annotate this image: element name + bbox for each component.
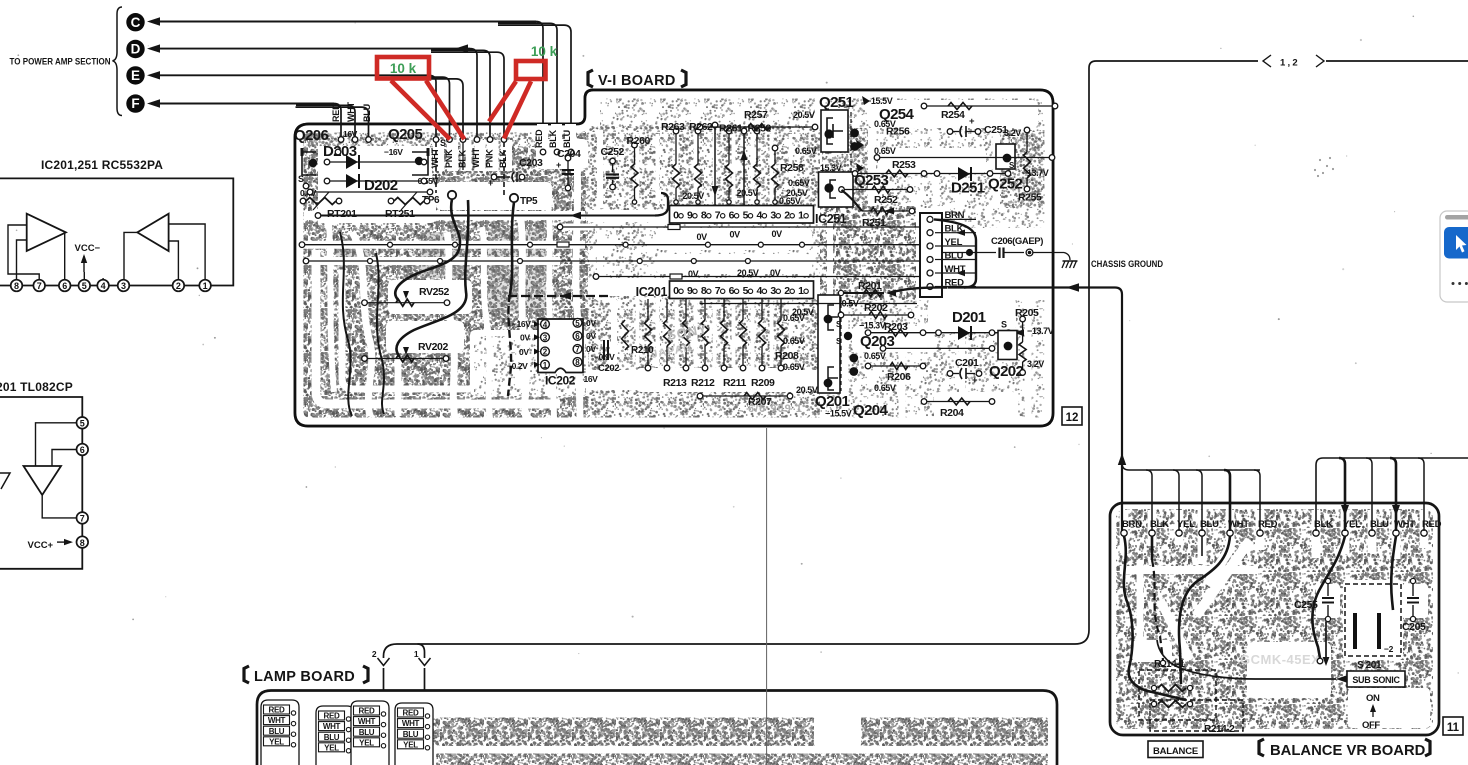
svg-text:Q251: Q251 [819, 94, 854, 111]
svg-text:20.5V: 20.5V [793, 110, 815, 120]
svg-text:16V: 16V [343, 129, 358, 139]
svg-text:BLU: BLU [1200, 519, 1219, 530]
svg-text:10 k: 10 k [531, 44, 558, 59]
svg-text:LAMP BOARD: LAMP BOARD [254, 669, 355, 685]
svg-text:8: 8 [701, 210, 707, 222]
svg-text:R257: R257 [744, 109, 768, 121]
svg-text:R208: R208 [775, 350, 799, 362]
svg-text:R262: R262 [689, 121, 713, 133]
svg-text:0.65V: 0.65V [864, 351, 886, 361]
svg-text:RED: RED [324, 712, 341, 721]
svg-text:BLK: BLK [548, 129, 558, 148]
svg-text:R214-2: R214-2 [1204, 724, 1235, 735]
svg-text:3: 3 [770, 285, 776, 297]
svg-text:1: 1 [543, 361, 548, 370]
svg-text:5: 5 [80, 419, 85, 429]
svg-text:RED: RED [269, 706, 286, 715]
svg-text:6/6 909 1: 6/6 909 1 [748, 403, 803, 415]
svg-text:R205: R205 [1015, 307, 1039, 319]
svg-text:9: 9 [687, 210, 693, 222]
svg-text:WHT: WHT [402, 719, 420, 728]
svg-text:7: 7 [715, 285, 721, 297]
svg-text:RT251: RT251 [385, 208, 415, 220]
svg-text:C206(GAEP): C206(GAEP) [991, 236, 1043, 247]
svg-text:0.65V: 0.65V [783, 336, 805, 346]
svg-text:0.65V: 0.65V [874, 383, 896, 393]
svg-text:−16V: −16V [512, 319, 531, 329]
svg-text:R203: R203 [884, 321, 908, 333]
svg-text:RV202: RV202 [418, 341, 448, 353]
svg-text:10 k: 10 k [390, 61, 417, 76]
svg-text:C205: C205 [1402, 621, 1426, 633]
svg-text:RV252: RV252 [419, 286, 449, 298]
svg-text:R260: R260 [627, 135, 651, 147]
svg-text:0V: 0V [688, 269, 699, 279]
svg-text:6: 6 [80, 445, 85, 455]
svg-text:0V: 0V [772, 229, 783, 239]
svg-text:BALANCE VR BOARD: BALANCE VR BOARD [1270, 743, 1426, 759]
svg-text:5: 5 [743, 210, 749, 222]
svg-text:C252: C252 [601, 146, 625, 158]
svg-text:0.65V: 0.65V [779, 196, 801, 206]
svg-text:IC201: IC201 [636, 285, 668, 299]
svg-text:0V: 0V [519, 347, 529, 357]
svg-text:BLU: BLU [359, 728, 375, 737]
svg-text:1,2: 1,2 [1280, 58, 1300, 69]
svg-text:YEL: YEL [359, 738, 374, 747]
svg-text:2: 2 [784, 210, 790, 222]
svg-text:+: + [488, 178, 493, 188]
svg-text:WHT: WHT [346, 101, 356, 122]
svg-text:R213: R213 [663, 377, 687, 389]
svg-text:Q206: Q206 [294, 127, 329, 144]
svg-text:WHT: WHT [323, 722, 341, 731]
svg-text:BLK: BLK [1150, 519, 1169, 530]
svg-text:−0.2V: −0.2V [507, 361, 528, 371]
svg-text:4: 4 [543, 320, 548, 329]
svg-text:R201: R201 [858, 280, 882, 292]
svg-text:IC201,251 RC5532PA: IC201,251 RC5532PA [41, 158, 163, 172]
svg-text:R252: R252 [874, 194, 898, 206]
svg-text:0.65V: 0.65V [795, 146, 817, 156]
svg-text:RED: RED [534, 129, 544, 148]
svg-text:0V: 0V [520, 333, 530, 343]
svg-text:−16V: −16V [384, 147, 403, 157]
svg-text:7: 7 [715, 210, 721, 222]
svg-text:R256: R256 [886, 126, 910, 138]
svg-text:Q203: Q203 [860, 333, 895, 350]
svg-text:5: 5 [575, 319, 580, 328]
svg-text:D201: D201 [952, 309, 986, 326]
svg-text:+: + [556, 160, 561, 170]
svg-text:Q205: Q205 [388, 126, 423, 143]
svg-text:RED: RED [403, 709, 420, 718]
svg-text:−15.5V: −15.5V [825, 409, 852, 419]
svg-text:V-I BOARD: V-I BOARD [598, 73, 676, 89]
svg-text:BRN: BRN [1122, 519, 1142, 530]
svg-text:R206: R206 [887, 371, 911, 383]
svg-text:11: 11 [1447, 722, 1460, 734]
svg-text:R259: R259 [748, 123, 772, 135]
svg-text:8: 8 [80, 538, 85, 548]
svg-text:RT201: RT201 [327, 208, 357, 220]
svg-text:0: 0 [673, 210, 679, 222]
svg-text:BALANCE: BALANCE [1153, 746, 1198, 757]
svg-text:C201: C201 [955, 357, 979, 369]
svg-text:9: 9 [687, 285, 693, 297]
svg-text:S: S [440, 138, 446, 148]
svg-text:YEL: YEL [403, 740, 418, 749]
svg-text:R253: R253 [892, 159, 916, 171]
svg-text:7: 7 [575, 345, 580, 354]
svg-text:WHT: WHT [471, 147, 481, 168]
svg-text:20.5V: 20.5V [737, 188, 759, 198]
svg-text:IC251: IC251 [815, 212, 847, 226]
svg-text:BLU: BLU [362, 104, 372, 122]
svg-text:3: 3 [770, 210, 776, 222]
svg-text:PNK: PNK [485, 149, 495, 168]
svg-text:C: C [131, 15, 141, 30]
svg-text:6: 6 [62, 281, 67, 291]
svg-text:R255: R255 [1018, 192, 1042, 204]
svg-text:R251: R251 [862, 217, 886, 229]
svg-text:YEL: YEL [269, 737, 284, 746]
svg-text:R211: R211 [723, 377, 746, 389]
svg-text:F: F [131, 96, 139, 111]
svg-text:CHASSIS GROUND: CHASSIS GROUND [1091, 259, 1163, 269]
svg-text:−15.3V: −15.3V [859, 321, 886, 331]
svg-text:0V: 0V [586, 344, 596, 354]
svg-text:20.5V: 20.5V [796, 385, 818, 395]
svg-text:RED: RED [359, 707, 376, 716]
svg-text:8: 8 [575, 358, 580, 367]
svg-text:R261: R261 [719, 123, 743, 135]
svg-text:BLU: BLU [562, 130, 572, 148]
svg-text:20.5V: 20.5V [737, 268, 759, 278]
svg-text:0.65V: 0.65V [783, 313, 805, 323]
svg-text:Q201: Q201 [815, 393, 850, 410]
svg-text:C203: C203 [519, 157, 543, 169]
svg-text:2: 2 [543, 348, 548, 357]
svg-text:0.65V: 0.65V [788, 178, 810, 188]
svg-text:1: 1 [798, 210, 804, 222]
svg-text:BLK: BLK [1314, 519, 1333, 530]
svg-text:5: 5 [82, 281, 87, 291]
svg-text:−2: −2 [1384, 644, 1394, 654]
svg-text:D251: D251 [951, 180, 985, 197]
svg-text:3: 3 [121, 281, 126, 291]
svg-text:WHT: WHT [268, 716, 286, 725]
svg-text:E: E [131, 68, 140, 83]
svg-text:3: 3 [543, 333, 548, 342]
svg-text:6: 6 [575, 332, 580, 341]
svg-text:−13.7V: −13.7V [1027, 326, 1054, 336]
svg-text:4: 4 [101, 281, 106, 291]
svg-text:+: + [972, 375, 978, 386]
svg-text:BLU: BLU [324, 733, 340, 742]
svg-text:S: S [1001, 320, 1007, 330]
svg-text:0: 0 [673, 285, 679, 297]
svg-text:R258: R258 [780, 162, 804, 174]
svg-text:R263: R263 [661, 121, 685, 133]
svg-text:GCMK-45EX: GCMK-45EX [1240, 652, 1320, 667]
svg-text:R209: R209 [751, 377, 775, 389]
svg-text:5: 5 [743, 285, 749, 297]
svg-text:8: 8 [701, 285, 707, 297]
svg-text:D: D [131, 42, 141, 57]
svg-text:RED: RED [331, 103, 341, 122]
svg-text:S 201: S 201 [1357, 660, 1382, 671]
svg-text:R254: R254 [941, 109, 965, 121]
svg-text:201 TL082CP: 201 TL082CP [0, 380, 73, 394]
svg-text:C202: C202 [598, 363, 619, 374]
svg-text:3.2V: 3.2V [1004, 128, 1021, 138]
svg-text:BLK: BLK [498, 149, 508, 168]
svg-text:WHT: WHT [358, 717, 376, 726]
svg-text:1: 1 [414, 649, 419, 659]
svg-text:2: 2 [176, 281, 181, 291]
svg-text:6: 6 [729, 285, 735, 297]
svg-text:8: 8 [14, 281, 19, 291]
svg-text:4: 4 [756, 210, 762, 222]
svg-text:0V: 0V [586, 331, 596, 341]
svg-text:RED: RED [1422, 519, 1442, 530]
svg-text:VCC−: VCC− [75, 243, 101, 254]
svg-text:Q202: Q202 [989, 363, 1024, 380]
svg-text:VCC+: VCC+ [28, 540, 54, 551]
svg-text:ON: ON [1366, 693, 1380, 704]
svg-text:0.65V: 0.65V [783, 362, 805, 372]
svg-text:TO POWER AMP SECTION: TO POWER AMP SECTION [10, 57, 111, 67]
svg-text:SUB SONIC: SUB SONIC [1352, 675, 1400, 685]
svg-text:Q204: Q204 [853, 402, 889, 419]
svg-text:2: 2 [372, 649, 377, 659]
svg-text:6: 6 [729, 210, 735, 222]
svg-text:0V: 0V [770, 268, 781, 278]
svg-text:12: 12 [1066, 412, 1079, 424]
svg-text:16V: 16V [584, 374, 599, 384]
svg-text:R212: R212 [691, 377, 715, 389]
svg-text:R204: R204 [940, 407, 964, 419]
svg-text:WHT: WHT [430, 147, 440, 168]
svg-text:7: 7 [80, 514, 85, 524]
svg-text:BLU: BLU [403, 730, 419, 739]
svg-text:7: 7 [37, 281, 42, 291]
svg-text:PNK: PNK [444, 149, 454, 168]
svg-text:3.2V: 3.2V [1027, 359, 1044, 369]
svg-text:4: 4 [756, 285, 762, 297]
svg-text:TP5: TP5 [520, 196, 538, 207]
svg-text:−15.5V: −15.5V [866, 96, 893, 106]
svg-text:Q252: Q252 [988, 176, 1023, 193]
svg-text:−20.5V: −20.5V [678, 191, 705, 201]
svg-text:IC202: IC202 [545, 374, 576, 388]
svg-text:YEL: YEL [324, 743, 339, 752]
svg-text:0V: 0V [586, 318, 596, 328]
svg-text:OFF: OFF [1362, 720, 1380, 731]
svg-text:2: 2 [784, 285, 790, 297]
svg-text:0V: 0V [730, 230, 741, 240]
svg-text:0V: 0V [697, 232, 708, 242]
svg-text:1: 1 [798, 285, 804, 297]
svg-text:+: + [969, 116, 975, 127]
svg-text:BLU: BLU [1370, 519, 1389, 530]
svg-text:RED: RED [1258, 519, 1278, 530]
svg-text:BLU: BLU [269, 727, 285, 736]
svg-text:1: 1 [203, 281, 208, 291]
